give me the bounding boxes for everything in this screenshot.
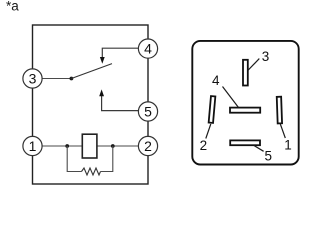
svg-text:*a: *a bbox=[6, 0, 19, 14]
terminal 4 bbox=[138, 39, 157, 58]
leader line pin 4 bbox=[223, 87, 239, 108]
junction dot: left coil node bbox=[65, 144, 69, 148]
pin slot 3 bbox=[243, 60, 248, 86]
terminal 1 bbox=[23, 136, 42, 155]
resistor branch wires bbox=[67, 146, 81, 172]
leader line pin 3 bbox=[248, 59, 259, 71]
relay internal-circuit outer box bbox=[33, 25, 149, 184]
relay coil bbox=[82, 134, 97, 158]
junction dot: switch pivot bbox=[70, 77, 74, 81]
junction dot: right coil node bbox=[111, 144, 115, 148]
svg-text:5: 5 bbox=[144, 104, 152, 120]
pin slot 1 (tilted) bbox=[277, 97, 282, 124]
arrow: contact 4 (points down) bbox=[100, 57, 105, 64]
pin slot 5 bbox=[230, 140, 260, 145]
svg-text:3: 3 bbox=[262, 49, 270, 64]
svg-text:4: 4 bbox=[212, 73, 220, 88]
terminal 5 bbox=[138, 102, 157, 121]
svg-text:1: 1 bbox=[29, 138, 37, 154]
leader line pin 1 bbox=[280, 124, 285, 138]
svg-text:2: 2 bbox=[200, 138, 208, 153]
svg-text:2: 2 bbox=[144, 138, 152, 154]
svg-text:4: 4 bbox=[144, 41, 152, 57]
terminal 3 bbox=[23, 69, 42, 88]
wire: terminal 5 branch bbox=[102, 96, 139, 111]
pin slot 4 bbox=[230, 108, 260, 113]
leader line pin 2 bbox=[206, 124, 211, 139]
resistor zigzag bbox=[82, 168, 101, 175]
wire: terminal 3 to switch pivot bbox=[42, 78, 71, 80]
switch blade (movable contact) bbox=[71, 64, 112, 79]
arrow: contact 5 (points up) bbox=[99, 89, 104, 96]
svg-text:3: 3 bbox=[29, 71, 37, 87]
connector housing (pin face view) bbox=[192, 41, 298, 165]
leader line pin 5 bbox=[254, 146, 264, 152]
wire: terminal 1 to coil bbox=[42, 145, 82, 147]
pin slot 2 (tilted) bbox=[209, 96, 216, 123]
wire: terminal 4 branch bbox=[102, 48, 138, 58]
terminal 2 bbox=[138, 136, 157, 155]
wire: coil to terminal 2 bbox=[97, 145, 138, 147]
svg-text:1: 1 bbox=[284, 138, 292, 153]
svg-text:5: 5 bbox=[264, 148, 272, 163]
